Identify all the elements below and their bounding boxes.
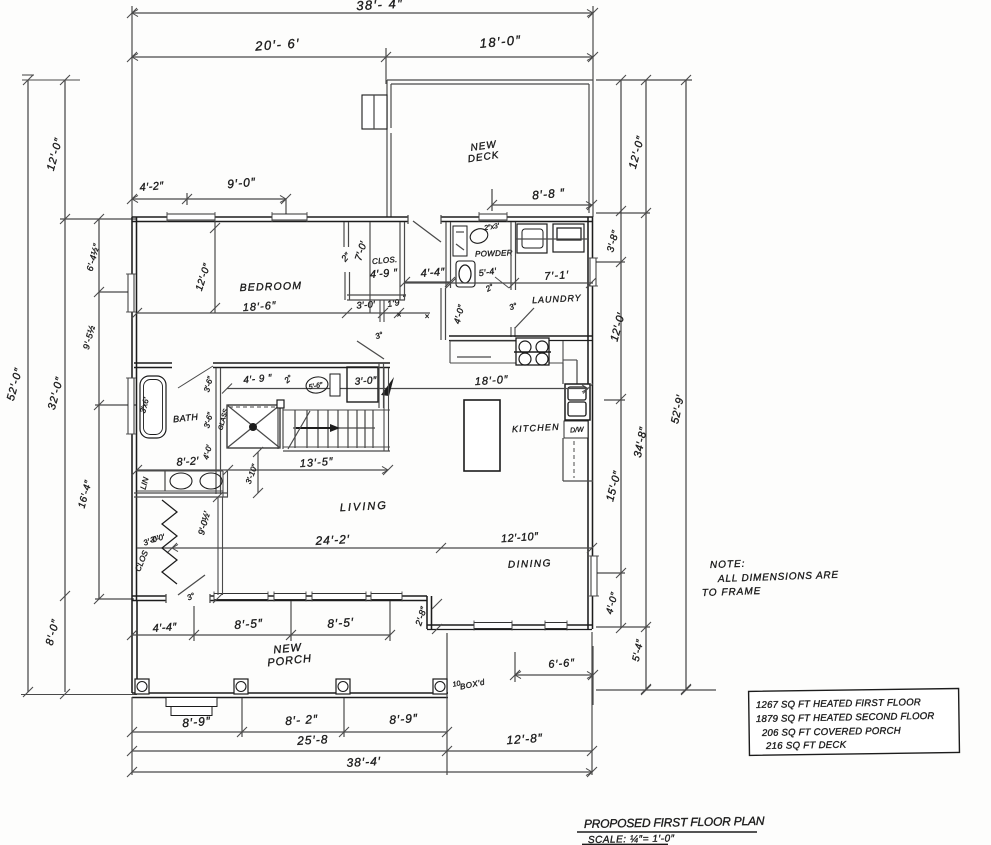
svg-text:×: × (397, 311, 402, 320)
svg-text:38′-4′: 38′-4′ (346, 754, 381, 770)
svg-text:NOTE:: NOTE: (710, 559, 746, 571)
svg-text:12′-8″: 12′-8″ (506, 731, 543, 748)
svg-text:6′-6″: 6′-6″ (548, 657, 576, 671)
svg-text:SCALE: ¼″= 1′-0″: SCALE: ¼″= 1′-0″ (588, 832, 675, 845)
svg-text:D/W: D/W (570, 426, 585, 434)
svg-text:LIVING: LIVING (340, 500, 389, 514)
svg-text:4′-9 ″: 4′-9 ″ (369, 267, 398, 281)
svg-text:25′-8: 25′-8 (296, 732, 329, 748)
svg-text:9′-0″: 9′-0″ (227, 175, 257, 191)
svg-text:3′-0″: 3′-0″ (354, 375, 377, 388)
svg-text:8′- 2″: 8′- 2″ (285, 712, 319, 728)
svg-text:8′-5′: 8′-5′ (327, 615, 355, 631)
svg-text:BEDROOM: BEDROOM (239, 280, 302, 294)
svg-text:3′-0′: 3′-0′ (356, 299, 376, 311)
svg-text:DINING: DINING (508, 558, 552, 571)
svg-text:7′-1′: 7′-1′ (544, 269, 570, 283)
svg-text:4′-4″: 4′-4″ (420, 266, 446, 280)
svg-text:TO FRAME: TO FRAME (702, 586, 762, 599)
svg-text:13′-5″: 13′-5″ (299, 456, 334, 470)
svg-text:×: × (425, 312, 430, 321)
svg-text:216 SQ FT DECK: 216 SQ FT DECK (765, 740, 847, 752)
svg-text:8′-5″: 8′-5″ (234, 616, 264, 632)
svg-text:18′-6″: 18′-6″ (242, 300, 277, 314)
svg-text:24′-2′: 24′-2′ (314, 532, 350, 548)
svg-text:4′-4″: 4′-4″ (152, 621, 178, 635)
svg-text:8′-2′: 8′-2′ (176, 455, 200, 469)
svg-text:20′- 6′: 20′- 6′ (254, 35, 301, 53)
svg-text:4′-2″: 4′-2″ (139, 180, 165, 194)
svg-text:18′-0″: 18′-0″ (474, 374, 509, 388)
svg-text:8′-8 ″: 8′-8 ″ (532, 186, 566, 203)
svg-text:POWDER: POWDER (475, 248, 513, 258)
svg-text:8′-9″: 8′-9″ (182, 714, 212, 730)
svg-text:8′-9″: 8′-9″ (389, 711, 419, 727)
